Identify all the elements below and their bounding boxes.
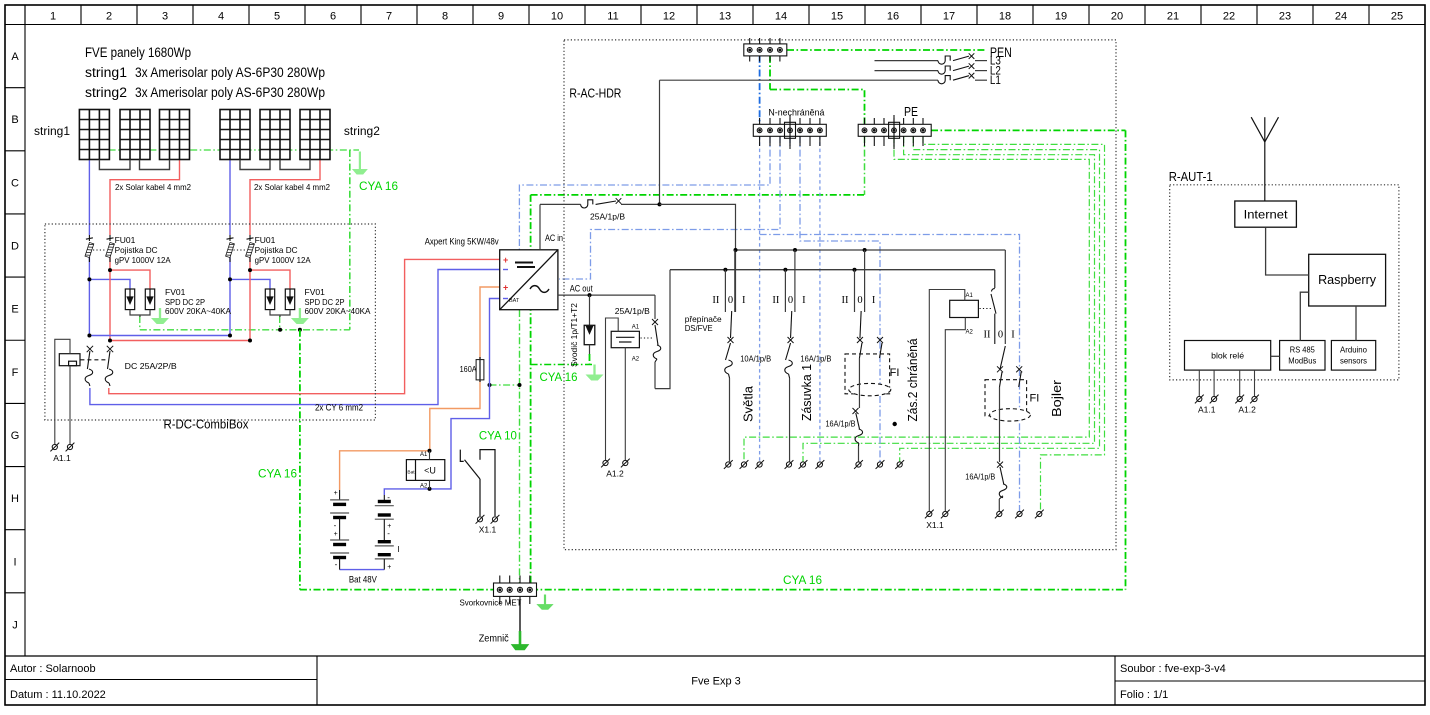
svg-text:AC in: AC in (545, 233, 563, 243)
wire SPD1 bottom join (130, 310, 150, 315)
wire battery plus orange from inverter through 160A fuse (480, 287, 500, 360)
svg-text:A: A (11, 51, 19, 63)
terminal block Svorkovnice MET (494, 576, 537, 605)
svg-text:H: H (11, 493, 19, 505)
wire battery minus bond to earth (490, 384, 520, 386)
wire PV string1 negative blue (88, 160, 90, 235)
svg-text:22: 22 (1223, 11, 1235, 23)
wire N pin5 branch to Zas.2 (800, 136, 880, 462)
wire earth vertical from panels into DC box (349, 150, 351, 330)
wire DC minus bus blue (89, 335, 230, 337)
wire battery minus blue from inverter (430, 299, 500, 489)
wire earth PE block to loop (931, 129, 1126, 131)
svg-text:A1.1: A1.1 (53, 453, 71, 463)
wire earth horizontal inside DC box (140, 329, 350, 331)
svg-text:II: II (984, 330, 991, 341)
svg-text:Bojler: Bojler (1049, 379, 1064, 417)
terminal A1.1 pin2 (66, 443, 75, 452)
svg-text:B: B (11, 114, 18, 126)
svg-text:PE: PE (904, 105, 918, 119)
svg-text:2x CY 6 mm2: 2x CY 6 mm2 (315, 403, 363, 414)
wire grid feed to DS bus (660, 204, 736, 312)
svg-text:Fve Exp 3: Fve Exp 3 (691, 676, 741, 688)
terminal A1.2 pin1 (601, 459, 610, 468)
svg-text:II: II (842, 295, 849, 306)
wire inverter PE CYA10 down to MET (519, 310, 521, 583)
junction dot blue1 (87, 277, 91, 281)
terminal A1.1 pin1 (50, 443, 59, 452)
contactor coil DC box (59, 354, 80, 366)
svg-text:160A: 160A (460, 364, 477, 374)
svg-text:Zás.2 chráněná: Zás.2 chráněná (905, 338, 920, 422)
svg-text:6: 6 (330, 11, 336, 23)
svg-text:CYA 10: CYA 10 (479, 431, 517, 443)
mechanical link contactor-breaker (641, 337, 654, 339)
breaker 16A/1p/B Bojler (997, 462, 1007, 511)
svg-text:600V 20KA~40KA: 600V 20KA~40KA (165, 306, 231, 316)
wire N bold PEN pin2 down to N block (759, 56, 761, 124)
wire string2 fuse3 to SPD blue (229, 257, 231, 279)
terminal output Zasuvka PE (799, 460, 808, 469)
wire Svetla phase to terminal (727, 378, 729, 459)
svg-text:II: II (772, 295, 779, 306)
wire earth PE pin1 down to inverter level (864, 136, 866, 195)
junction dot red2 (248, 268, 252, 272)
wire coil lead A1.1-2 (69, 366, 71, 444)
wire PV string2 positive red (250, 160, 320, 235)
ground symbol light right of MET (537, 595, 553, 610)
wire AC out (558, 294, 655, 296)
mechanical link fuse pair 1 (93, 249, 106, 251)
svg-text:Svorkovnice MET: Svorkovnice MET (460, 598, 522, 608)
svg-text:Svodič 1p/T1+T2: Svodič 1p/T1+T2 (569, 303, 579, 367)
blade changeover Bojler (1000, 346, 1005, 369)
SPD FV01 string1 pole a (125, 289, 134, 310)
svg-text:A2: A2 (632, 357, 640, 363)
wire DC breaker out red to inverter (109, 259, 500, 393)
svg-text:F: F (12, 367, 19, 379)
svg-text:FV01: FV01 (165, 287, 186, 297)
SPD FV01 string1 pole b (145, 289, 154, 310)
svg-text:DS/FVE: DS/FVE (685, 323, 713, 333)
wire DS bus to Bojler right stub (1004, 250, 1006, 344)
breaker 25A/1p/B main (540, 198, 660, 208)
svg-text:19: 19 (1055, 11, 1067, 23)
undervoltage relay &lt;U box (406, 460, 444, 481)
changeover switch Zasuvka II-0-I (784, 270, 786, 312)
svg-text:600V 20KA~40KA: 600V 20KA~40KA (305, 306, 371, 316)
solar panel string1 module 3 (160, 110, 190, 160)
solar panel string1 module 1 (79, 110, 109, 160)
wire string1 fuse1 to SPD blue (88, 257, 90, 336)
ground symbol SPD2 (292, 308, 309, 324)
svg-text:FU01: FU01 (255, 235, 276, 245)
svg-text:FI: FI (1030, 393, 1040, 405)
svg-text:12: 12 (663, 11, 675, 23)
svg-text:E: E (11, 304, 18, 316)
blade changeover Zasuvka (791, 311, 792, 338)
svg-text:25A/1p/B: 25A/1p/B (615, 306, 650, 316)
svg-text:AC out: AC out (570, 284, 593, 294)
terminal X1.1 pin2 (Bojler) (941, 510, 950, 519)
terminal Bojler PE (1035, 510, 1044, 519)
svg-text:16: 16 (887, 11, 899, 23)
svg-text:X1.1: X1.1 (926, 520, 944, 530)
svg-text:J: J (12, 619, 18, 631)
fuse FU01 pole 1 (85, 235, 94, 262)
svg-text:gPV 1000V 12A: gPV 1000V 12A (115, 255, 171, 265)
svg-text:A1: A1 (632, 325, 640, 331)
svg-text:CYA 16: CYA 16 (783, 575, 822, 587)
terminal X1.1 pin1 (battery) (476, 515, 485, 524)
svg-text:RS 485: RS 485 (1290, 346, 1316, 355)
wire N pin3 to inverter AC-out (559, 136, 780, 279)
wire Bojler coil A1 lead (929, 290, 965, 512)
wire battery bottom link (340, 569, 385, 571)
terminal output Zas2 N (876, 460, 885, 469)
svg-text:I: I (872, 295, 876, 306)
svg-text:A1.1: A1.1 (1198, 405, 1216, 415)
terminal output Svetla L (724, 460, 733, 469)
svg-text:FI: FI (890, 367, 900, 379)
wire relay A1 lead (429, 451, 431, 460)
svg-text:blok relé: blok relé (1211, 351, 1244, 361)
svg-text:13: 13 (719, 11, 731, 23)
svg-text:FVE panely 1680Wp: FVE panely 1680Wp (85, 45, 191, 60)
svg-text:17: 17 (943, 11, 955, 23)
ground symbol SPD1 (152, 308, 169, 324)
svg-text:18: 18 (999, 11, 1011, 23)
solar panel string2 module 2 (260, 110, 290, 160)
wire N pin2 to inverter AC-in (519, 136, 770, 250)
wire PV frame earth dash-dot through panels CYA16 (95, 149, 359, 151)
junction dot L1 node (658, 202, 662, 206)
svg-text:A1.2: A1.2 (606, 469, 624, 479)
mechanical link fuse pair 2 (234, 249, 246, 251)
svg-text:I: I (397, 545, 399, 554)
svg-text:16A/1p/B: 16A/1p/B (965, 472, 995, 482)
wire SPD2 earth elbow (279, 316, 281, 330)
contactor coil AC (25A contactor) (611, 331, 639, 347)
svg-text:A1: A1 (966, 293, 974, 299)
svg-text:N-nechráněná: N-nechráněná (768, 108, 825, 119)
svg-text:2x Solar kabel 4 mm2: 2x Solar kabel 4 mm2 (254, 182, 330, 192)
svg-text:16A/1p/B: 16A/1p/B (800, 354, 831, 364)
wire Internet to Raspberry (1266, 227, 1309, 275)
mechanical link Bojler contactor (980, 308, 992, 310)
wire panel interlink string1 a (99, 160, 130, 170)
svg-text:C: C (11, 177, 19, 189)
wire N pin1 down to Svetla group terminal (759, 136, 761, 462)
svg-text:+: + (334, 531, 338, 538)
svg-text:+: + (503, 255, 508, 265)
junction dots minus bus (87, 334, 91, 338)
junction dot AC out (588, 293, 592, 297)
junction earth dots in DC box (278, 328, 282, 332)
svg-text:7: 7 (386, 11, 392, 23)
wire L1 to main breaker (659, 80, 661, 204)
svg-text:string2: string2 (344, 126, 380, 138)
wire coil lead A1.1-1 (55, 339, 70, 444)
svg-text:0: 0 (857, 295, 862, 306)
svg-text:23: 23 (1279, 11, 1291, 23)
svg-text:15: 15 (831, 11, 843, 23)
SPD FV01 string2 pole b (285, 289, 294, 310)
svg-text:+: + (334, 490, 338, 497)
svg-text:CYA 16: CYA 16 (359, 181, 398, 193)
svg-text:Soubor : fve-exp-3-v4: Soubor : fve-exp-3-v4 (1120, 663, 1226, 675)
fuse FU01 pole 4 (246, 235, 255, 262)
svg-text:A2: A2 (966, 330, 974, 336)
svg-text:3: 3 (162, 11, 168, 23)
svg-text:24: 24 (1335, 11, 1347, 23)
wire PV string2 negative blue (229, 160, 231, 235)
svg-text:-: - (387, 529, 390, 538)
junction dot blue2 (228, 277, 232, 281)
wire string1 fuse2 to SPD red (109, 257, 111, 341)
wire SPD2 bottom join (270, 310, 290, 315)
ground symbol at panel frame earth (353, 152, 368, 175)
terminal A1.1 out2 (1210, 395, 1219, 404)
DC breaker pole 1 (87, 346, 93, 352)
terminal Bojler N (1015, 510, 1024, 519)
wire N pin7 to Zasuvka terminal (819, 136, 821, 462)
svg-text:R-AUT-1: R-AUT-1 (1169, 170, 1213, 184)
wire battery minus to battery stack (384, 489, 429, 495)
box Raspberry (1309, 254, 1386, 306)
SPD FV01 string2 pole a (265, 289, 274, 310)
changeover switch Svetla II-0-I (724, 270, 726, 312)
box Arduino sensors (1331, 341, 1375, 371)
incoming phase L2 (875, 63, 1001, 77)
wire battery plus to battery stack (340, 451, 430, 490)
svg-text:X1.1: X1.1 (479, 525, 497, 535)
svg-text:II: II (712, 295, 719, 306)
svg-text:16A/1p/B: 16A/1p/B (826, 419, 856, 429)
terminal X1.1 pin1 (Bojler) (925, 510, 934, 519)
incoming phase L1 (660, 73, 1001, 87)
svg-text:8: 8 (442, 11, 448, 23)
battery string A (330, 490, 349, 570)
wire panel interlink string2 a (240, 160, 270, 170)
solar panel string2 module 3 (300, 110, 330, 160)
svg-text:Bat: Bat (407, 470, 415, 476)
svg-text:Světla: Světla (741, 385, 756, 422)
wire PV string1 positive red (110, 160, 180, 235)
svg-text:4: 4 (218, 11, 224, 23)
wire Bojler coil A2 lead (945, 318, 965, 512)
svg-text:5: 5 (274, 11, 280, 23)
wire AC out branch drop (654, 295, 656, 319)
svg-text:0: 0 (788, 295, 793, 306)
svg-text:0: 0 (998, 330, 1003, 341)
solar panel string2 module 1 (220, 110, 250, 160)
wire coil A2 lead to A1.2 (624, 348, 626, 460)
terminal A1.2 out1 (1235, 395, 1244, 404)
DC breaker pole 2 (107, 346, 113, 352)
svg-text:G: G (11, 430, 20, 442)
svg-text:25: 25 (1391, 11, 1403, 23)
wire earth PEN pin3 down (769, 56, 771, 90)
svg-text:R-AC-HDR: R-AC-HDR (569, 87, 621, 101)
svg-text:A2: A2 (420, 484, 428, 490)
svg-text:string1: string1 (85, 65, 127, 80)
inverter DC symbol (515, 262, 533, 264)
svg-text:21: 21 (1167, 11, 1179, 23)
wire SPD1 earth elbow (139, 316, 141, 330)
svg-text:sensors: sensors (1340, 357, 1367, 366)
svg-text:Autor : Solarnoob: Autor : Solarnoob (10, 663, 96, 675)
wire earth loop right vertical (1125, 130, 1127, 589)
wire earth vertical beside inverter (530, 195, 532, 590)
wire PE distribution pin2 (923, 136, 1105, 511)
junction dots plus bus (108, 339, 112, 343)
svg-text:1: 1 (50, 11, 56, 23)
terminal output Zas2 PE (895, 460, 904, 469)
svg-text:25A/1p/B: 25A/1p/B (590, 212, 625, 222)
svg-text:3x Amerisolar poly AS-6P30 280: 3x Amerisolar poly AS-6P30 280Wp (135, 85, 325, 100)
wire AC in drop (539, 204, 541, 249)
wire earth bottom loop CYA16 (300, 589, 1126, 591)
svg-text:Bat 48V: Bat 48V (349, 575, 377, 585)
wire panel interlink string1 b (140, 160, 170, 170)
svg-text:+: + (387, 564, 391, 571)
terminal A1.1 out1 (1195, 395, 1204, 404)
svg-text:A1.2: A1.2 (1238, 405, 1256, 415)
svg-text:D: D (11, 241, 19, 253)
terminal Bojler L (995, 510, 1004, 519)
inverter AC symbol (530, 286, 549, 293)
svg-text:Folio : 1/1: Folio : 1/1 (1120, 689, 1168, 701)
terminal A1.2 pin2 (621, 459, 630, 468)
wire N pin4 stub (789, 136, 791, 146)
antenna (1251, 117, 1278, 201)
junction dots undervoltage relay (428, 449, 432, 453)
contactor contact Bojler (991, 270, 996, 344)
wire svodic earth run (531, 364, 595, 366)
wire PE distribution pin4 (803, 136, 1095, 462)
svg-text:FU01: FU01 (115, 235, 136, 245)
changeover switch Zas.2 II-0-I (854, 270, 856, 312)
box Internet (1235, 201, 1297, 227)
wire main earth CYA16 vertical from DC box to bottom loop (299, 330, 301, 590)
incoming phase L3 (875, 53, 1001, 67)
terminal output Svetla PE (740, 460, 749, 469)
svg-text:2x Solar kabel 4 mm2: 2x Solar kabel 4 mm2 (115, 182, 191, 192)
terminal output Svetla N (755, 460, 764, 469)
wire PE distribution pin5 (744, 136, 1089, 462)
svg-text:+: + (503, 283, 508, 293)
bus FVE (inverter) (670, 269, 995, 271)
svg-text:string1: string1 (34, 126, 70, 138)
enclosure R-DC-CombiBox (45, 224, 376, 420)
breaker 25A/1p/B AC out branch (652, 319, 661, 389)
title block (5, 656, 1425, 705)
svg-text:-: - (334, 521, 337, 530)
svg-text:Raspberry: Raspberry (1318, 273, 1377, 287)
wire Raspberry to RS485 (1300, 292, 1308, 340)
terminal output Zasuvka N (816, 460, 825, 469)
wire DC breaker out blue to inverter (90, 270, 500, 405)
terminal block PEN (744, 38, 787, 62)
svg-text:A1: A1 (420, 452, 428, 458)
battery string B (375, 493, 400, 571)
svg-text:ModBus: ModBus (1288, 357, 1316, 366)
fuse 160A battery (476, 360, 484, 380)
wire panel interlink string2 b (280, 160, 310, 170)
blade changeover Zas.2 (860, 311, 861, 338)
DC breaker mechanical link (80, 359, 105, 361)
bus junction dots (793, 248, 797, 252)
svg-text:FV01: FV01 (305, 287, 326, 297)
wire Raspberry to Arduino (1355, 306, 1357, 341)
contactor coil Bojler (950, 300, 979, 317)
svg-text:string2: string2 (85, 85, 127, 100)
breaker 16A/1p/B Zas.2 below RCD (853, 408, 863, 462)
svg-text:I: I (13, 556, 16, 568)
svg-text:I: I (742, 295, 746, 306)
wire blok rele to RS485 (1271, 355, 1280, 357)
svg-text:CYA 16: CYA 16 (540, 372, 578, 384)
wire earth horizontal to inverter area (531, 194, 865, 196)
wire relay A2 lead (429, 480, 431, 489)
svg-text:3x Amerisolar poly AS-6P30 280: 3x Amerisolar poly AS-6P30 280Wp (135, 65, 325, 80)
svg-text:Pojistka DC: Pojistka DC (255, 245, 298, 255)
blade changeover Svetla (731, 311, 732, 338)
svg-text:Zemnič: Zemnič (479, 633, 509, 645)
junction dot red1 (108, 268, 112, 272)
svg-text:Zásuvka 1: Zásuvka 1 (799, 364, 814, 421)
wire coil A1 lead to A1.2 (606, 318, 619, 460)
RCD FI Bojler (985, 366, 1030, 462)
breaker 16A/1p/B Zasuvka (785, 337, 794, 462)
terminal output Zasuvka L (785, 460, 794, 469)
breaker 10A/1p/B Svetla (725, 337, 734, 462)
stray junction dot (893, 422, 897, 426)
wire earth PEN to PE block (770, 90, 865, 125)
wire svodic to earth (589, 345, 591, 355)
wire branch to FVE bus (655, 270, 670, 389)
box RS 485 ModBus (1280, 341, 1325, 371)
svg-text:CYA 16: CYA 16 (258, 469, 297, 481)
svg-text:10A/1p/B: 10A/1p/B (740, 354, 771, 364)
svg-text:I: I (802, 295, 806, 306)
svg-text:11: 11 (607, 11, 618, 23)
svg-text:R-DC-CombiBox: R-DC-CombiBox (164, 418, 250, 432)
ground symbol at svodic (586, 365, 603, 381)
RCD FI Zas.2 (845, 337, 891, 408)
svg-text:9: 9 (498, 11, 504, 23)
terminal output Zas2 L (854, 460, 863, 469)
wire N branch to Bojler (760, 235, 1020, 512)
svg-text:Pojistka DC: Pojistka DC (115, 245, 158, 255)
solar panel string1 module 2 (120, 110, 150, 160)
svg-text:BAT: BAT (509, 298, 520, 304)
wire DC plus bus red (110, 340, 250, 342)
junction dots battery bond (488, 383, 492, 387)
terminal X1.1 pin2 (battery) (491, 515, 500, 524)
terminal A1.2 out2 (1250, 395, 1259, 404)
fuse FU01 pole 2 (106, 235, 115, 262)
fuse FU01 pole 3 (226, 235, 235, 262)
wire PEN incoming green (787, 49, 985, 51)
inverter Axpert King box (500, 250, 558, 310)
bus DS (grid) (736, 249, 1006, 251)
enclosure R-AUT-1 (1170, 185, 1399, 380)
svg-text:Internet: Internet (1244, 208, 1289, 222)
svg-text:14: 14 (775, 11, 787, 23)
svg-text:L1: L1 (990, 75, 1001, 87)
